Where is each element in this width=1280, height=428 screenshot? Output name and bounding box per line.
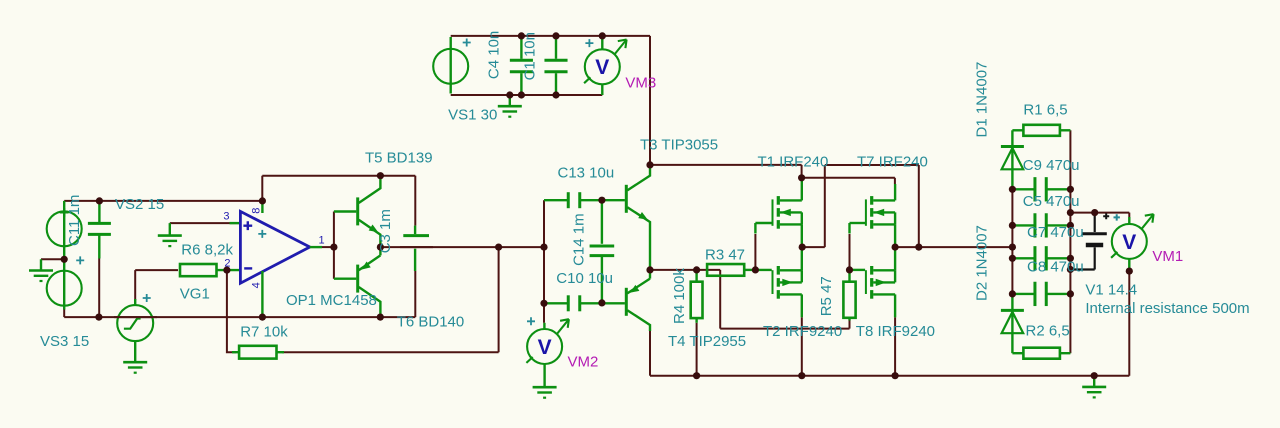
svg-text:C14 1m: C14 1m [571, 213, 588, 266]
svg-text:R2 6,5: R2 6,5 [1026, 323, 1070, 340]
svg-text:T6 BD140: T6 BD140 [397, 313, 465, 330]
svg-text:D1 1N4007: D1 1N4007 [974, 62, 991, 138]
svg-text:T1 IRF240: T1 IRF240 [758, 153, 829, 170]
svg-text:D2 1N4007: D2 1N4007 [974, 225, 991, 301]
svg-text:VS2 15: VS2 15 [115, 196, 164, 213]
svg-text:OP1 MC1458: OP1 MC1458 [286, 292, 377, 309]
svg-text:C11 1m: C11 1m [66, 195, 83, 246]
svg-text:C4 10n: C4 10n [486, 31, 503, 79]
svg-text:VM1: VM1 [1152, 248, 1183, 265]
svg-text:T5 BD139: T5 BD139 [365, 150, 433, 167]
svg-text:C7 470u: C7 470u [1027, 224, 1084, 241]
svg-text:C1 10n: C1 10n [522, 32, 539, 80]
svg-text:T7 IRF240: T7 IRF240 [857, 153, 928, 170]
svg-text:V: V [595, 56, 609, 79]
svg-text:VM2: VM2 [568, 354, 599, 371]
svg-text:R6 8,2k: R6 8,2k [181, 242, 233, 259]
svg-text:V: V [1122, 231, 1136, 254]
svg-text:4: 4 [251, 282, 263, 288]
svg-text:3: 3 [223, 211, 229, 223]
svg-text:8: 8 [251, 208, 263, 214]
svg-text:T3 TIP3055: T3 TIP3055 [640, 137, 718, 154]
svg-text:T8 IRF9240: T8 IRF9240 [856, 323, 935, 340]
svg-text:R4 100k: R4 100k [671, 268, 688, 324]
svg-text:Internal resistance 500m: Internal resistance 500m [1085, 300, 1249, 317]
svg-text:VS3 15: VS3 15 [40, 333, 89, 350]
svg-text:V1 14.4: V1 14.4 [1085, 282, 1137, 299]
svg-text:T2 IRF9240: T2 IRF9240 [763, 323, 842, 340]
svg-text:C9 470u: C9 470u [1023, 157, 1080, 174]
svg-text:VG1: VG1 [180, 286, 210, 303]
svg-text:R1 6,5: R1 6,5 [1023, 102, 1067, 119]
svg-text:VM3: VM3 [625, 75, 656, 92]
svg-text:C5 470u: C5 470u [1023, 193, 1080, 210]
svg-text:C13 10u: C13 10u [558, 165, 615, 182]
svg-text:C8 470u: C8 470u [1027, 258, 1084, 275]
svg-text:1: 1 [319, 235, 325, 247]
svg-text:C10 10u: C10 10u [556, 270, 613, 287]
svg-text:R7 10k: R7 10k [240, 323, 288, 340]
svg-text:V: V [538, 336, 552, 359]
svg-text:T4 TIP2955: T4 TIP2955 [668, 333, 746, 350]
svg-text:VS1 30: VS1 30 [448, 107, 497, 124]
svg-text:C3 1m: C3 1m [377, 209, 394, 253]
svg-text:R5 47: R5 47 [818, 276, 835, 316]
svg-text:R3 47: R3 47 [705, 247, 745, 264]
